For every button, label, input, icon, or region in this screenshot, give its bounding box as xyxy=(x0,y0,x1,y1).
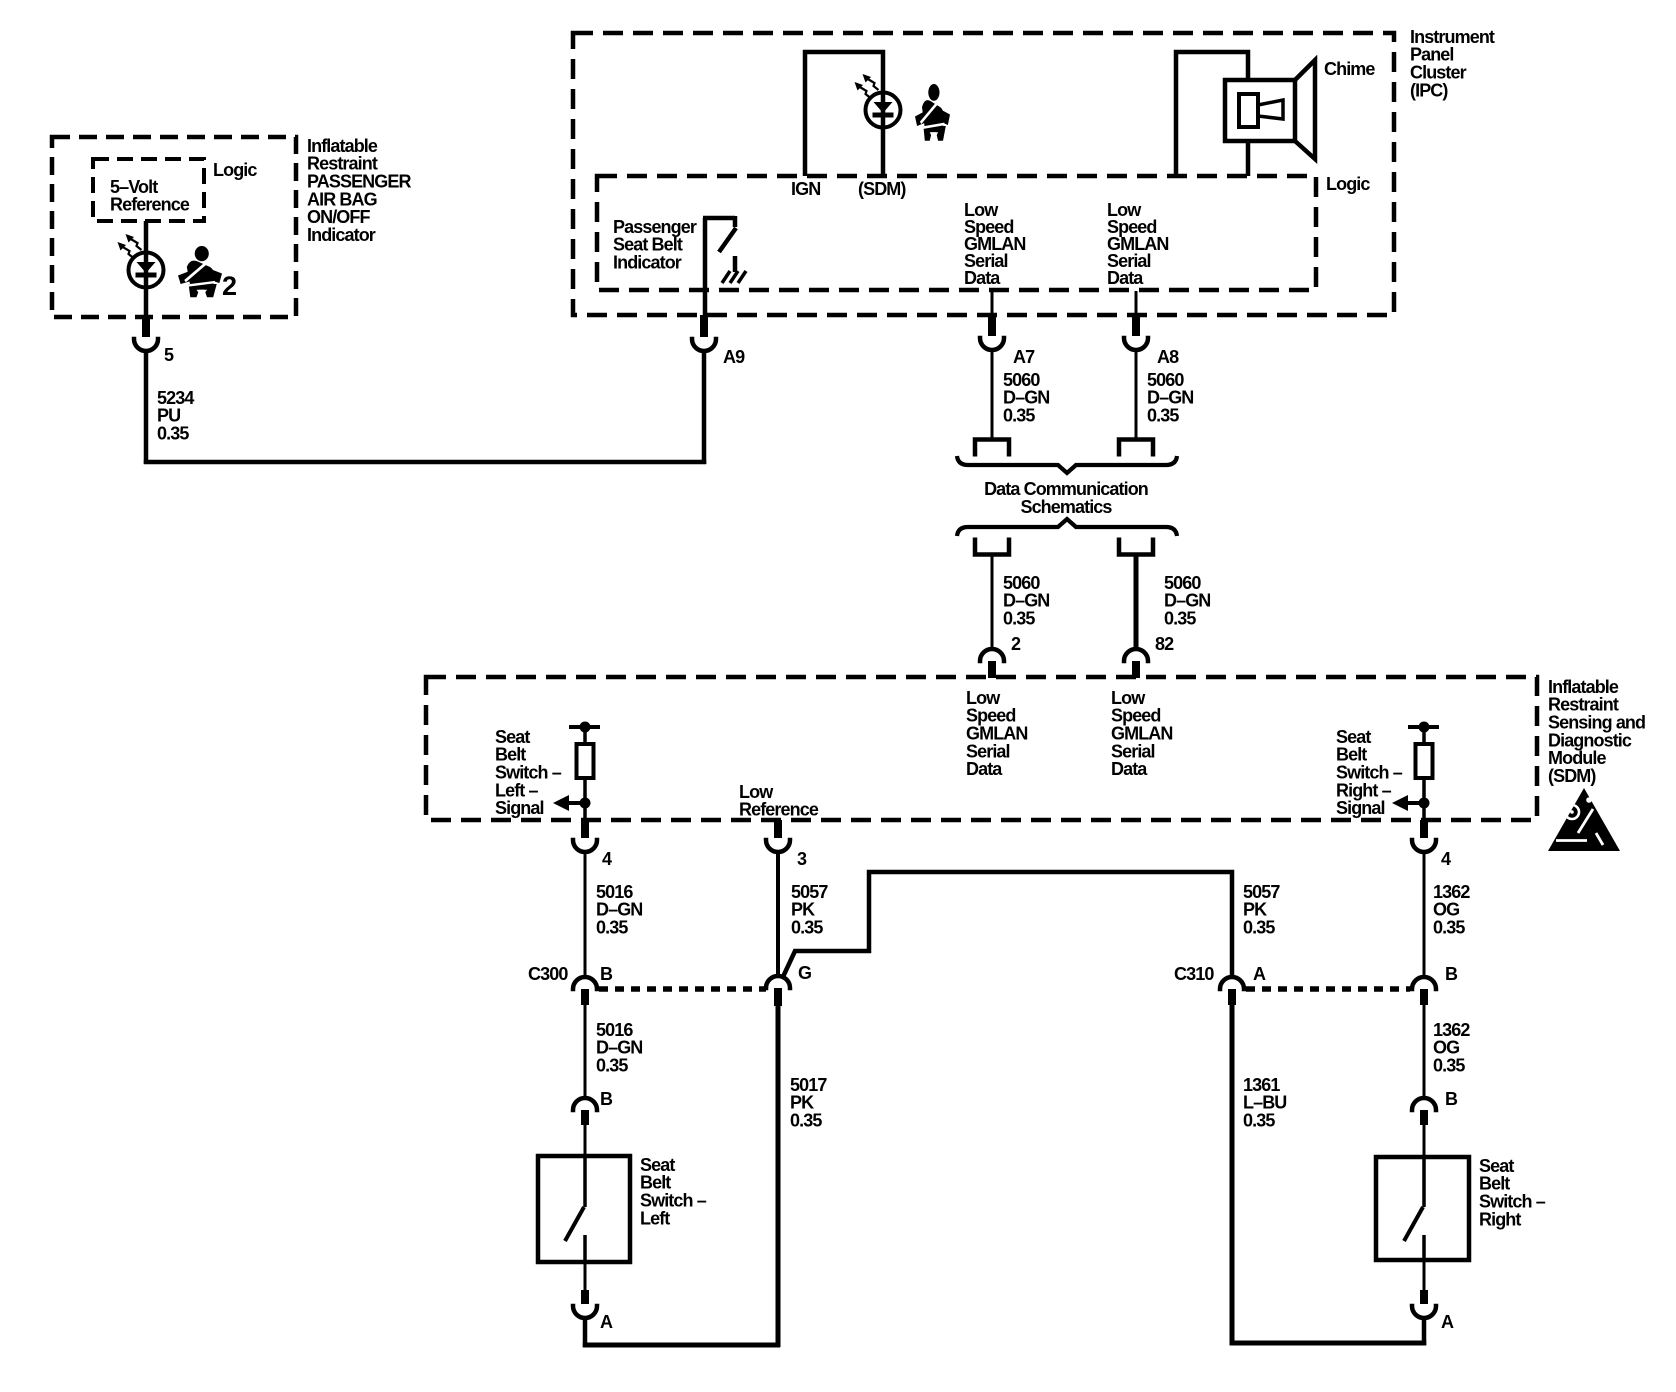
svg-text:A8: A8 xyxy=(1157,347,1179,367)
brace upper xyxy=(957,456,1177,473)
connector A terminal left switch xyxy=(584,1262,587,1290)
svg-text:0.35: 0.35 xyxy=(1164,609,1196,629)
wire 1361 L-BU xyxy=(1230,1005,1235,1346)
chassis ground xyxy=(722,271,730,283)
svg-text:A7: A7 xyxy=(1013,347,1035,367)
off-page connector SDM pin82 side xyxy=(1119,538,1153,555)
module box: Inflatable Restraint PASSENGER AIR BAG ON/OFF Indicator xyxy=(52,137,296,317)
wire 5060 D-GN A8 xyxy=(1135,350,1138,439)
svg-text:0.35: 0.35 xyxy=(1147,406,1179,426)
svg-text:Right: Right xyxy=(1479,1209,1521,1229)
wire from IPC to A8 xyxy=(1135,291,1138,315)
svg-text:0.35: 0.35 xyxy=(596,1056,628,1076)
connector B terminal right switch xyxy=(1412,1098,1436,1110)
svg-text:0.35: 0.35 xyxy=(157,424,189,444)
svg-text:5: 5 xyxy=(164,345,174,365)
seat belt switch right pull-up resistor xyxy=(1408,725,1439,729)
svg-text:(SDM): (SDM) xyxy=(858,179,906,199)
svg-text:A: A xyxy=(1441,1312,1454,1332)
connector C300 cavity G xyxy=(766,976,790,988)
pin 4 terminal left xyxy=(581,820,589,838)
svg-text:0.35: 0.35 xyxy=(1243,1111,1275,1131)
chime wire xyxy=(1176,52,1248,176)
passenger seat belt indicator switch xyxy=(703,218,708,318)
junction and signal arrow left xyxy=(580,798,591,809)
svg-text:0.35: 0.35 xyxy=(1243,918,1275,938)
svg-text:3: 3 xyxy=(797,849,807,869)
wire 5060 D-GN to pin 2 xyxy=(991,556,994,650)
wire 5016 D-GN upper xyxy=(584,852,587,977)
svg-text:0.35: 0.35 xyxy=(1433,918,1465,938)
wire 5234 PU: pin 5 to A9 xyxy=(144,351,149,464)
svg-text:A: A xyxy=(1253,964,1266,984)
svg-text:Left: Left xyxy=(640,1208,670,1228)
svg-text:Logic: Logic xyxy=(1326,174,1370,194)
svg-text:(IPC): (IPC) xyxy=(1410,80,1448,100)
svg-text:0.35: 0.35 xyxy=(1003,609,1035,629)
wire 5060 D-GN A7 xyxy=(991,350,994,439)
svg-text:Data: Data xyxy=(966,759,1003,779)
seat belt switch left box xyxy=(538,1156,630,1262)
pin A8 terminal xyxy=(1132,315,1140,336)
svg-text:Reference: Reference xyxy=(739,800,819,820)
seat belt switch left pull-up resistor xyxy=(569,725,600,729)
pin 5 terminal xyxy=(142,317,150,337)
module box: Instrument Panel Cluster (IPC) xyxy=(573,33,1394,315)
svg-text:0.35: 0.35 xyxy=(1003,406,1035,426)
connector C310 cavity A xyxy=(1220,977,1244,989)
off-page connector A7 side xyxy=(975,440,1009,457)
svg-text:Chime: Chime xyxy=(1324,59,1375,79)
wire: 5-volt reference to LED to pin 5 xyxy=(144,221,149,317)
svg-text:Logic: Logic xyxy=(213,160,257,180)
junction and signal arrow right xyxy=(1419,798,1430,809)
wire from IPC to A7 xyxy=(991,291,994,315)
seat belt pictogram xyxy=(178,246,222,297)
svg-text:Data Communication: Data Communication xyxy=(984,479,1148,499)
svg-text:C300: C300 xyxy=(528,964,568,984)
5-Volt Reference box xyxy=(93,159,204,221)
svg-text:2: 2 xyxy=(222,271,236,301)
svg-text:Schematics: Schematics xyxy=(1020,497,1112,517)
warning triangle xyxy=(1548,788,1620,851)
svg-text:B: B xyxy=(600,1089,613,1109)
logic box inside IPC xyxy=(597,176,1316,290)
brace lower xyxy=(957,519,1177,536)
svg-text:82: 82 xyxy=(1155,634,1174,654)
wire 5016 D-GN lower xyxy=(584,1005,587,1096)
svg-text:0.35: 0.35 xyxy=(791,918,823,938)
off-page connector SDM pin2 side xyxy=(975,538,1009,555)
svg-text:Reference: Reference xyxy=(110,195,190,215)
svg-text:Data: Data xyxy=(964,268,1001,288)
svg-text:B: B xyxy=(600,964,613,984)
connector B terminal left switch xyxy=(573,1098,597,1110)
pin 2 terminal xyxy=(980,649,1004,661)
svg-text:Signal: Signal xyxy=(1336,798,1385,818)
ground stub xyxy=(733,256,738,272)
wire left switch to 5017 xyxy=(583,1318,588,1347)
svg-text:Indicator: Indicator xyxy=(307,225,376,245)
connector C300 cavity B xyxy=(573,977,597,989)
seat belt switch right box xyxy=(1376,1157,1469,1260)
svg-text:C310: C310 xyxy=(1174,964,1214,984)
LED indicator lamp xyxy=(129,253,164,288)
svg-text:A9: A9 xyxy=(723,347,745,367)
svg-text:Data: Data xyxy=(1107,268,1144,288)
svg-text:B: B xyxy=(1445,964,1458,984)
seat belt switch right contacts xyxy=(1422,1157,1426,1207)
seat belt switch left contacts xyxy=(583,1156,587,1207)
chime speaker symbol xyxy=(1225,80,1295,141)
svg-text:0.35: 0.35 xyxy=(596,918,628,938)
wire 5017 PK xyxy=(776,1006,781,1347)
off-page connector A8 side xyxy=(1119,440,1153,457)
C300 dashed connector line xyxy=(599,986,766,992)
svg-text:4: 4 xyxy=(602,849,612,869)
pin 3 terminal xyxy=(774,820,782,838)
module box: Inflatable Restraint Sensing and Diagnostic Module (SDM) xyxy=(426,677,1537,820)
wire 1362 OG upper xyxy=(1423,852,1426,977)
C310 dashed connector line xyxy=(1246,986,1410,992)
svg-text:Signal: Signal xyxy=(495,798,544,818)
wire 5057 PK branch to C310 xyxy=(782,872,1232,979)
LED light arrows (IPC) xyxy=(859,87,871,99)
wire 5057 PK from pin 3 xyxy=(776,852,780,976)
svg-text:0.35: 0.35 xyxy=(790,1111,822,1131)
svg-text:(SDM): (SDM) xyxy=(1548,766,1596,786)
svg-text:2: 2 xyxy=(1011,634,1021,654)
svg-text:G: G xyxy=(798,963,811,983)
wire right switch to 1361 xyxy=(1422,1318,1427,1346)
pin 4 terminal right xyxy=(1420,820,1428,838)
wire: IGN to seat belt lamp to SDM xyxy=(805,52,883,176)
pin A9 terminal xyxy=(700,315,708,337)
connector C310 cavity B xyxy=(1412,977,1436,989)
svg-text:Indicator: Indicator xyxy=(613,253,682,273)
LED light arrows xyxy=(122,247,134,259)
seat belt pictogram (IPC) xyxy=(915,84,950,141)
svg-text:Data: Data xyxy=(1111,759,1148,779)
svg-text:B: B xyxy=(1445,1089,1458,1109)
wire 1362 OG lower xyxy=(1423,1005,1426,1098)
svg-text:IGN: IGN xyxy=(791,179,820,199)
svg-text:4: 4 xyxy=(1441,849,1451,869)
svg-text:0.35: 0.35 xyxy=(1433,1056,1465,1076)
connector A terminal right switch xyxy=(1423,1260,1426,1290)
svg-text:A: A xyxy=(600,1312,613,1332)
wire 5060 D-GN to pin 82 xyxy=(1134,556,1139,650)
pin A7 terminal xyxy=(988,315,996,336)
pin 82 terminal xyxy=(1124,649,1148,661)
LED seat belt indicator lamp (IPC) xyxy=(866,93,901,128)
